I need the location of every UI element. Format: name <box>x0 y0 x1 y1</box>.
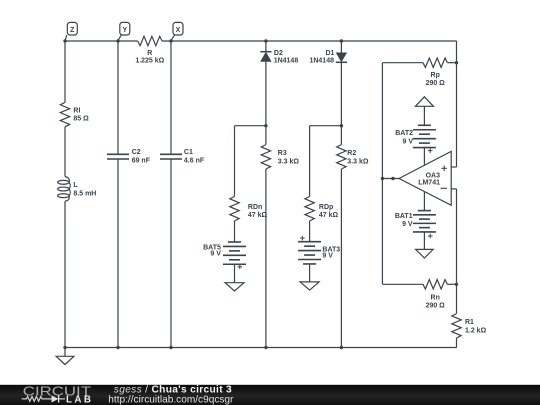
wire bottom rail <box>65 347 457 349</box>
wire C1 branch lower <box>170 159 172 348</box>
wire BAT1 from op-amp V- <box>423 192 425 211</box>
svg-text:1.2 kΩ: 1.2 kΩ <box>465 327 487 334</box>
resistor RDn <box>230 197 239 221</box>
junction R2 branch <box>340 124 343 127</box>
label BAT3 9 V <box>322 247 340 260</box>
svg-text:RDp: RDp <box>319 204 333 211</box>
wire R1 lower <box>456 338 458 348</box>
label BAT2 9 V <box>395 130 413 145</box>
label D1 1N4148 <box>309 50 334 64</box>
svg-text:BAT2: BAT2 <box>395 130 413 137</box>
wire Rp right segment <box>447 62 456 64</box>
wire D1 stub <box>340 41 342 53</box>
label RI 85 Ohm <box>73 107 89 122</box>
op-amp output pin dot <box>391 177 394 180</box>
node Y junction <box>116 39 119 42</box>
resistor RI <box>60 102 69 126</box>
wire C2 branch lower <box>117 159 119 348</box>
node X <box>171 22 183 40</box>
label D2 1N4148 <box>274 50 299 64</box>
wire left rail lower <box>64 201 66 347</box>
svg-text:8.5 mH: 8.5 mH <box>73 190 96 197</box>
wire plus input stub <box>451 166 456 168</box>
wire BAT3 to ground <box>309 264 311 282</box>
ground above BAT2 (flipped) <box>415 97 433 126</box>
ground bottom-left <box>56 348 74 365</box>
wire left rail middle <box>64 127 66 177</box>
wire top rail right segment (R to right corner) <box>162 40 456 42</box>
junction Rp right <box>455 61 458 64</box>
resistor RDp <box>305 197 314 221</box>
wire op-amp frame left rail <box>381 63 383 285</box>
svg-text:OA3: OA3 <box>426 172 441 179</box>
svg-text:47 kΩ: 47 kΩ <box>248 212 268 219</box>
wire Rp left segment <box>382 62 423 64</box>
ground BAT3 <box>300 282 319 290</box>
svg-text:4.6 nF: 4.6 nF <box>184 158 205 165</box>
node Y <box>118 22 130 40</box>
ground BAT5 <box>225 283 244 291</box>
wire BAT2 to op-amp V+ <box>423 148 425 166</box>
svg-text:9 V: 9 V <box>322 253 333 260</box>
svg-text:3.3 kΩ: 3.3 kΩ <box>347 159 369 166</box>
wire R3 upper <box>265 126 267 145</box>
wire minus input stub <box>451 188 456 190</box>
junction C1 bottom <box>169 346 172 349</box>
wire RDn to BAT5 <box>234 221 236 242</box>
wire branch to RDn column <box>235 125 266 127</box>
svg-text:http://circuitlab.com/c9qcsgr: http://circuitlab.com/c9qcsgr <box>108 394 234 405</box>
node Z junction <box>63 39 66 42</box>
label Rp 290 Ohm <box>426 72 446 87</box>
label C1 4.6 nF <box>184 149 205 165</box>
op-amp plus input marker <box>441 167 447 169</box>
svg-text:1.225 kΩ: 1.225 kΩ <box>135 58 164 65</box>
junction R2 bottom <box>340 346 343 349</box>
label R3 3.3 kOhm <box>278 150 300 165</box>
svg-text:D1: D1 <box>325 50 334 57</box>
label C2 69 nF <box>132 149 151 165</box>
wire R2 lower <box>340 169 342 348</box>
svg-text:LAB: LAB <box>66 394 93 405</box>
label BAT5 9 V <box>203 245 221 258</box>
inductor L <box>58 177 71 202</box>
label Rn 290 Ohm <box>426 294 446 309</box>
svg-text:290 Ω: 290 Ω <box>426 303 446 310</box>
battery BAT1 <box>413 211 436 239</box>
label RDn 47 kOhm <box>248 204 268 219</box>
junction R3 branch <box>264 124 267 127</box>
svg-text:9 V: 9 V <box>210 251 221 258</box>
wire Rn right segment <box>447 283 456 285</box>
CircuitLab logo <box>22 383 94 405</box>
wire RDn upper <box>234 126 236 197</box>
node X junction <box>169 39 172 42</box>
wire minus rail <box>456 189 458 284</box>
svg-text:1N4148: 1N4148 <box>309 57 334 64</box>
svg-text:69 nF: 69 nF <box>132 158 151 165</box>
svg-text:R3: R3 <box>278 150 287 157</box>
svg-text:RDn: RDn <box>248 204 262 211</box>
svg-text:Z: Z <box>70 27 75 34</box>
footer bar <box>0 385 540 405</box>
svg-text:3.3 kΩ: 3.3 kΩ <box>278 159 300 166</box>
junction R3 bottom <box>264 346 267 349</box>
svg-text:R1: R1 <box>465 319 474 326</box>
svg-text:9 V: 9 V <box>402 138 413 145</box>
junction output frame <box>381 177 384 180</box>
svg-text:RI: RI <box>73 107 80 114</box>
resistor R <box>138 36 162 45</box>
svg-text:L: L <box>73 182 78 189</box>
label L 8.5 mH <box>73 182 96 197</box>
svg-text:Y: Y <box>122 27 127 34</box>
wire BAT5 to ground <box>234 264 236 282</box>
svg-text:BAT1: BAT1 <box>395 213 413 220</box>
wire BAT1 to ground <box>423 232 425 250</box>
resistor R3 <box>261 145 270 169</box>
junction Rn right <box>455 283 458 286</box>
diode D1 <box>336 53 347 63</box>
svg-text:C1: C1 <box>184 149 193 156</box>
junction D1 top <box>340 39 343 42</box>
wire plus rail <box>456 63 458 167</box>
resistor Rn <box>423 280 447 289</box>
label RDp 47 kOhm <box>319 204 339 219</box>
junction D2 top <box>264 39 267 42</box>
svg-text:R2: R2 <box>347 150 356 157</box>
capacitor C1 <box>160 154 182 159</box>
svg-text:X: X <box>176 27 181 34</box>
junction C2 bottom <box>116 346 119 349</box>
op-amp minus input marker <box>441 187 448 189</box>
battery BAT5 <box>223 242 246 269</box>
ground BAT1 <box>416 249 434 258</box>
wire op-amp output <box>382 178 399 180</box>
svg-text:85 Ω: 85 Ω <box>73 116 89 123</box>
label R1 1.2 kOhm <box>465 319 487 334</box>
svg-text:290 Ω: 290 Ω <box>426 80 446 87</box>
label R value 1.225 k&#937; <box>135 50 164 65</box>
label R2 3.3 kOhm <box>347 150 369 165</box>
wire Rn left segment <box>382 283 423 285</box>
wire D2 stub <box>265 41 267 52</box>
svg-text:Rn: Rn <box>431 294 440 301</box>
op-amp OA3 triangle <box>399 151 451 205</box>
battery BAT3 <box>298 236 321 264</box>
wire R1 upper <box>456 284 458 313</box>
wire C1 branch upper <box>170 41 172 154</box>
wire D1 to junction <box>340 62 342 125</box>
wire RDp to BAT3 <box>309 221 311 242</box>
svg-text:C2: C2 <box>132 149 141 156</box>
wire RDp upper <box>309 126 311 197</box>
svg-text:LM741: LM741 <box>418 180 440 187</box>
resistor R2 <box>337 145 346 169</box>
wire D2 to junction <box>265 62 267 126</box>
resistor R1 <box>452 314 461 338</box>
label BAT1 9 V <box>395 213 413 228</box>
wire right rail top <box>456 41 458 63</box>
svg-text:Rp: Rp <box>431 72 440 79</box>
wire R3 lower <box>265 169 267 348</box>
wire R2 upper <box>340 126 342 145</box>
junction bottom-left <box>63 346 66 349</box>
capacitor C2 <box>107 154 129 159</box>
svg-text:47 kΩ: 47 kΩ <box>319 212 339 219</box>
wire top rail left segment (Z to R) <box>65 40 138 42</box>
svg-text:9 V: 9 V <box>402 221 413 228</box>
node Z <box>65 22 77 40</box>
label OA3 LM741 <box>418 172 440 186</box>
battery BAT2 <box>413 125 436 153</box>
svg-text:R: R <box>147 50 152 57</box>
svg-text:1N4148: 1N4148 <box>274 57 299 64</box>
diode D2 <box>260 52 271 62</box>
wire branch to RDp column <box>310 125 342 127</box>
resistor Rp <box>423 58 447 67</box>
wire left rail upper <box>64 41 66 102</box>
wire C2 branch upper <box>117 41 119 154</box>
svg-text:D2: D2 <box>274 50 283 57</box>
